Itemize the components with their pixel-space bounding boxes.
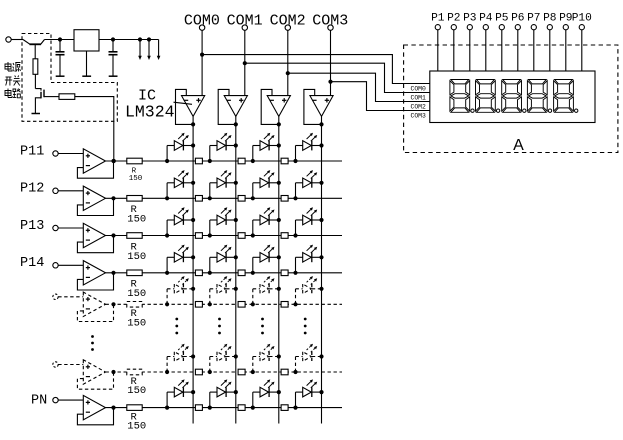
svg-text:PN: PN	[31, 393, 47, 408]
LED D13	[251, 133, 281, 163]
svg-text:P3: P3	[463, 12, 476, 24]
wire pin P6	[517, 30, 519, 71]
op-amp row P13	[53, 223, 114, 252]
ground C1	[56, 75, 65, 77]
op-amp row PX1	[53, 292, 114, 321]
svg-text:150: 150	[127, 385, 146, 397]
LED D31	[165, 207, 195, 237]
svg-text:COM0: COM0	[411, 86, 427, 93]
wire pointer LM324 to U1A	[174, 102, 193, 104]
wire COM3 to display	[331, 82, 430, 111]
junction rail arrow1	[138, 37, 142, 41]
svg-text:P7: P7	[527, 12, 540, 24]
junction rail C2	[111, 37, 115, 41]
arrow output 3	[157, 40, 161, 61]
wire COM0 to display	[202, 55, 430, 84]
svg-text:P10: P10	[572, 12, 592, 24]
LED D12	[208, 133, 238, 163]
svg-text:150: 150	[127, 251, 146, 263]
wire feedback U1D	[304, 89, 322, 124]
wire pin P10	[581, 30, 583, 71]
voltage regulator U2	[74, 30, 99, 51]
svg-text:P14: P14	[20, 256, 44, 271]
terminal COM1	[242, 25, 247, 30]
arrow output 1	[138, 40, 142, 61]
seven-segment digit 3	[502, 80, 526, 113]
LED DN3	[251, 379, 281, 409]
wire row P13	[106, 235, 343, 237]
wire column 0 line	[192, 116, 194, 423]
resistor R PN 150	[127, 405, 142, 411]
capacitor C2	[109, 40, 118, 77]
svg-text:COM1: COM1	[411, 95, 427, 102]
wire COM2 to display	[288, 73, 430, 101]
wire feedback U1B	[218, 89, 236, 124]
resistor row P11 col2	[238, 158, 245, 164]
terminal P3	[467, 25, 472, 30]
resistor row P13 col2	[238, 233, 245, 239]
terminal P7	[531, 25, 536, 30]
svg-text:P12: P12	[20, 182, 44, 197]
svg-text:COM3: COM3	[411, 113, 427, 120]
transistor Q1	[23, 40, 45, 59]
resistor R2	[59, 94, 75, 100]
op-amp U1B column 1	[224, 96, 247, 117]
ellipsis rows continuation (left)	[91, 335, 94, 351]
wire R2 to P11 row	[75, 97, 114, 161]
LED D14	[293, 133, 323, 163]
resistor row PX2 col3	[281, 369, 288, 375]
op-amp row PN	[53, 395, 114, 424]
label power switch circuit (Chinese vertical)	[5, 62, 21, 98]
wire pin P8	[549, 30, 551, 71]
terminal P4	[483, 25, 488, 30]
dashed box power switch circuit	[22, 34, 117, 122]
resistor R PX1 150	[127, 302, 142, 308]
resistor R P12 150	[127, 196, 142, 202]
junction rail arrow2	[147, 37, 151, 41]
svg-text:P4: P4	[479, 12, 493, 24]
wire pin P9	[565, 30, 567, 71]
svg-text:P8: P8	[543, 12, 556, 24]
resistor row P12 col2	[238, 196, 245, 202]
junction output U1A	[191, 122, 195, 126]
capacitor C1	[56, 40, 65, 77]
LED D21	[165, 170, 195, 200]
svg-text:P9: P9	[559, 12, 572, 24]
terminal P2	[451, 25, 456, 30]
svg-text:P11: P11	[20, 144, 44, 159]
terminal COM0	[199, 25, 204, 30]
op-amp row P12	[53, 186, 114, 215]
LED D22	[208, 170, 238, 200]
resistor row PX2 col2	[238, 369, 245, 375]
terminal P9	[563, 25, 568, 30]
junction COM2	[286, 71, 290, 75]
junction output U1C	[277, 122, 281, 126]
LED DB3	[251, 344, 281, 374]
terminal P5	[499, 25, 504, 30]
LED D43	[251, 245, 281, 275]
resistor R1 (base)	[33, 59, 38, 75]
wire row P14	[106, 272, 343, 274]
resistor row PN col3	[281, 405, 288, 411]
seven-segment digit 1	[450, 80, 474, 113]
wire feedback U1A	[176, 89, 194, 124]
seven-segment digit 4	[527, 80, 551, 113]
svg-text:P13: P13	[20, 219, 44, 234]
wire row PX1	[106, 303, 343, 305]
junction output P11	[111, 159, 115, 163]
wire pin P1	[437, 30, 439, 71]
wire regulator ground pin	[86, 51, 88, 76]
junction output P12	[111, 196, 115, 200]
wire input to transistor	[11, 39, 23, 41]
LED DA3	[251, 276, 281, 306]
LED DA2	[208, 276, 238, 306]
junction output PN	[111, 406, 115, 410]
wire Q2 gate	[44, 96, 59, 98]
resistor row P12 col1	[195, 196, 202, 202]
resistor row PN col2	[238, 405, 245, 411]
LED D44	[293, 245, 323, 275]
op-amp U1A column 0	[182, 96, 205, 117]
seven-segment digit 5	[554, 80, 578, 113]
terminal COM3	[328, 25, 333, 30]
terminal COM2	[285, 25, 290, 30]
LED D32	[208, 207, 238, 237]
resistor row P12 col3	[281, 196, 288, 202]
resistor row PX1 col1	[195, 302, 202, 308]
wire row P12	[106, 197, 343, 199]
resistor row P11 col3	[281, 158, 288, 164]
wire pin P7	[533, 30, 535, 71]
junction COM0	[200, 53, 204, 57]
LED D41	[165, 245, 195, 275]
terminal P6	[515, 25, 520, 30]
wire COM1 vertical	[244, 30, 246, 95]
LED D42	[208, 245, 238, 275]
junction power to row1	[112, 159, 116, 163]
junction COM3	[328, 80, 332, 84]
wire COM3 vertical	[330, 30, 332, 95]
junction output PX1	[111, 302, 115, 306]
wire pin P5	[501, 30, 503, 71]
ground regulator	[82, 75, 91, 77]
ground C2	[109, 75, 118, 77]
wire pin P4	[485, 30, 487, 71]
wire column 2 line	[278, 116, 280, 423]
LED DB4	[293, 344, 323, 374]
ellipsis column 4	[304, 318, 307, 335]
junction output P13	[111, 233, 115, 237]
resistor row P14 col1	[195, 270, 202, 276]
LED DA4	[293, 276, 323, 306]
resistor row PX1 col3	[281, 302, 288, 308]
display box	[430, 71, 595, 123]
arrow output 2	[147, 40, 151, 61]
terminal P1	[435, 25, 440, 30]
ellipsis column 1	[175, 318, 178, 335]
resistor row P13 col3	[281, 233, 288, 239]
junction output P14	[111, 271, 115, 275]
svg-text:P2: P2	[447, 12, 460, 24]
svg-text:150: 150	[127, 421, 146, 433]
dashed box display module	[404, 45, 618, 153]
junction output U1B	[234, 122, 238, 126]
LED DA1	[165, 276, 195, 306]
LED D23	[251, 170, 281, 200]
op-amp row P14	[53, 261, 114, 290]
LED DB1	[165, 344, 195, 374]
junction rail C1	[58, 37, 62, 41]
terminal P8	[547, 25, 552, 30]
op-amp row P11	[53, 149, 114, 178]
op-amp U1C column 2	[267, 96, 290, 117]
resistor R P13 150	[127, 233, 142, 239]
power input terminal	[6, 37, 11, 42]
resistor row PX2 col1	[195, 369, 202, 375]
wire column 3 line	[321, 116, 323, 423]
LED D24	[293, 170, 323, 200]
svg-text:P6: P6	[511, 12, 524, 24]
wire column 1 line	[235, 116, 237, 423]
transistor Q2 MOSFET	[35, 89, 44, 114]
svg-text:150: 150	[127, 214, 146, 226]
wire R1 to Q2	[34, 74, 36, 88]
junction output PX2	[111, 370, 115, 374]
resistor R P11 150	[127, 158, 142, 164]
wire feedback U1C	[261, 89, 279, 124]
ground bar Q2 source	[32, 113, 41, 115]
seven-segment digit 2	[476, 80, 500, 113]
svg-text:150: 150	[127, 317, 146, 329]
ellipsis column 2	[218, 318, 221, 335]
LED DN1	[165, 379, 195, 409]
junction COM1	[243, 61, 247, 65]
wire pin P2	[453, 30, 455, 71]
svg-text:150: 150	[127, 288, 146, 300]
op-amp U1D column 3	[310, 96, 333, 117]
resistor row P14 col3	[281, 270, 288, 276]
LED DB2	[208, 344, 238, 374]
op-amp row PX2	[53, 360, 114, 389]
resistor R PX2 150	[127, 369, 142, 375]
wire +V rail	[45, 39, 75, 41]
resistor row PN col1	[195, 405, 202, 411]
svg-text:LM324: LM324	[125, 103, 175, 122]
wire pin P3	[469, 30, 471, 71]
LED DN2	[208, 379, 238, 409]
svg-text:A: A	[513, 137, 524, 154]
LED D34	[293, 207, 323, 237]
resistor row P14 col2	[238, 270, 245, 276]
ellipsis column 3	[261, 318, 264, 335]
resistor R P14 150	[127, 270, 142, 276]
wire row PX2	[106, 371, 343, 373]
LED D33	[251, 207, 281, 237]
resistor row P11 col1	[195, 158, 202, 164]
wire COM0 vertical	[201, 30, 203, 95]
svg-text:P1: P1	[431, 12, 445, 24]
wire row P11	[106, 160, 343, 162]
junction output U1D	[319, 122, 323, 126]
terminal P10	[579, 25, 584, 30]
LED DN4	[293, 379, 323, 409]
wire COM1 to display	[245, 63, 430, 92]
resistor row P13 col1	[195, 233, 202, 239]
wire COM2 vertical	[287, 30, 289, 95]
svg-text:P5: P5	[495, 12, 508, 24]
svg-text:150: 150	[129, 175, 143, 183]
LED D11	[165, 133, 195, 163]
wire row PN	[106, 407, 343, 409]
resistor row PX1 col2	[238, 302, 245, 308]
svg-text:COM2: COM2	[411, 104, 427, 111]
